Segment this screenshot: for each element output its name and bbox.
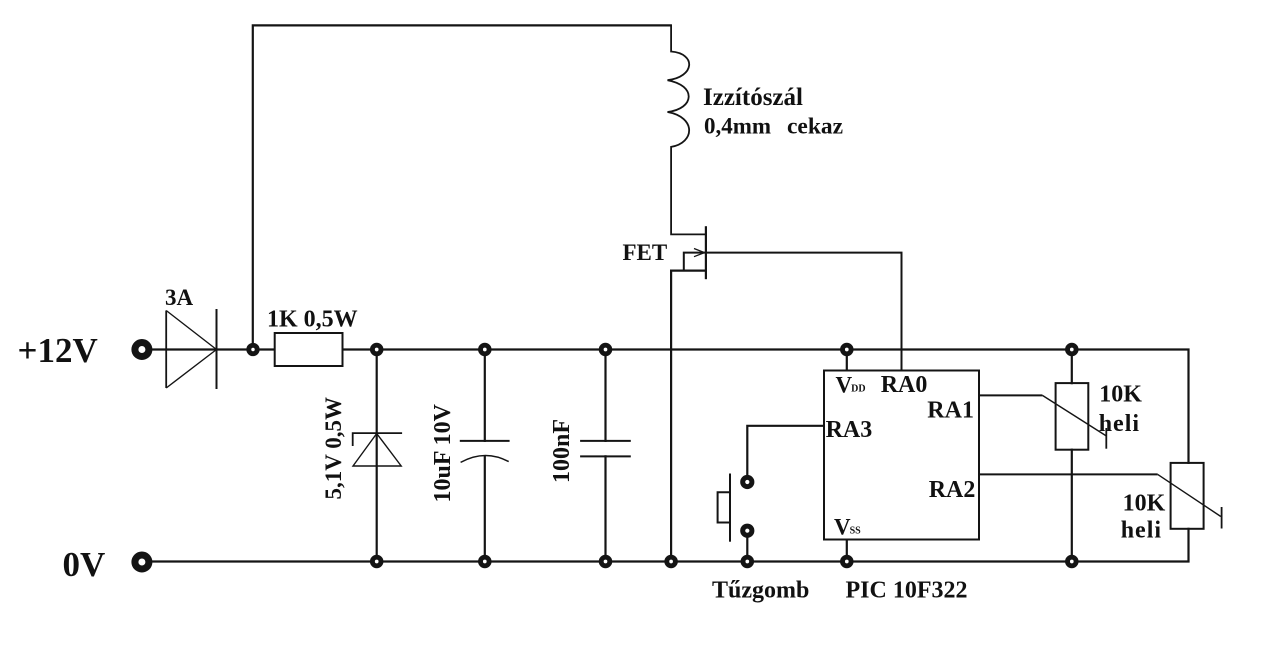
wire RA1 to pot1 wiper [979, 395, 1106, 448]
wire top loop from +12V node up and across [253, 25, 671, 350]
button contact top [743, 477, 752, 486]
svg-text:PIC 10F322: PIC 10F322 [846, 578, 968, 604]
node C2 bottom [601, 557, 610, 566]
svg-text:0V: 0V [63, 545, 106, 584]
node C2 top [601, 345, 610, 354]
node VDD [843, 345, 852, 354]
wire zener branch vertical [376, 350, 378, 562]
node pot1 top [1068, 345, 1077, 354]
svg-text:5,1V 0,5W: 5,1V 0,5W [321, 397, 346, 499]
svg-text:RA1: RA1 [927, 398, 974, 424]
svg-text:+12V: +12V [18, 331, 98, 370]
node button bottom rail [743, 557, 752, 566]
node C1 top [481, 345, 490, 354]
node zener bottom [372, 557, 381, 566]
svg-text:FET: FET [623, 240, 668, 265]
resistor R1 1K 0,5W [275, 333, 343, 366]
wire VSS pin [846, 540, 848, 562]
wire RA2 to pot2 wiper [979, 474, 1222, 528]
node C1 bottom [481, 557, 490, 566]
terminal 0V [135, 555, 149, 569]
wire FET source to 0V rail [671, 271, 706, 562]
IC U1 PIC 10F322 box [824, 371, 979, 540]
svg-text:10K: 10K [1123, 491, 1166, 517]
capacitor C2 100nF plates [580, 441, 631, 457]
svg-text:10uF 10V: 10uF 10V [430, 403, 456, 502]
node pot1 bottom [1068, 557, 1077, 566]
node diode-resistor [249, 345, 257, 353]
wire capacitor C1 leads [484, 350, 486, 562]
svg-text:RA3: RA3 [826, 417, 873, 443]
terminal +12V [135, 343, 149, 357]
wire pot1 leads [1071, 350, 1073, 562]
capacitor C1 10uF plates [460, 441, 510, 463]
svg-text:RA2: RA2 [929, 477, 976, 503]
potentiometer P1 10K heli [1056, 383, 1089, 450]
svg-text:RA0: RA0 [881, 372, 928, 398]
wire +12V rail left segment (terminal to diode node) [142, 348, 275, 350]
svg-text:0,4mm: 0,4mm [704, 114, 771, 139]
svg-text:Tűzgomb: Tűzgomb [712, 578, 809, 604]
node VSS [843, 557, 852, 566]
wire +12V rail main segment and right drop to pot2 [341, 350, 1189, 463]
svg-text:cekaz: cekaz [787, 114, 843, 140]
wire capacitor C2 leads [604, 350, 606, 562]
inductor L1 Izzitoszal coil [668, 25, 706, 234]
wire 0V rail and pot2 bottom lead [142, 529, 1189, 562]
wire VDD pin [846, 350, 848, 371]
node junction dots top rail [249, 345, 1076, 566]
diode D1 3A [166, 309, 216, 389]
svg-text:100nF: 100nF [549, 419, 575, 483]
button contact bottom [743, 526, 752, 535]
svg-text:10K: 10K [1099, 382, 1142, 408]
wire RA3 to button [747, 426, 824, 482]
potentiometer P2 10K heli [1171, 463, 1204, 529]
node FET source bottom [667, 557, 676, 566]
svg-text:heli: heli [1121, 518, 1162, 544]
svg-text:heli: heli [1099, 411, 1140, 437]
svg-text:Izzítószál: Izzítószál [703, 84, 803, 111]
transistor Q1 FET [684, 226, 902, 370]
pushbutton S1 [718, 474, 730, 542]
svg-text:3A: 3A [165, 285, 194, 310]
wire button bottom to 0V [746, 531, 748, 562]
zener diode Z1 5,1V [353, 433, 402, 466]
svg-text:1K 0,5W: 1K 0,5W [267, 307, 358, 333]
node zener top [372, 345, 381, 354]
